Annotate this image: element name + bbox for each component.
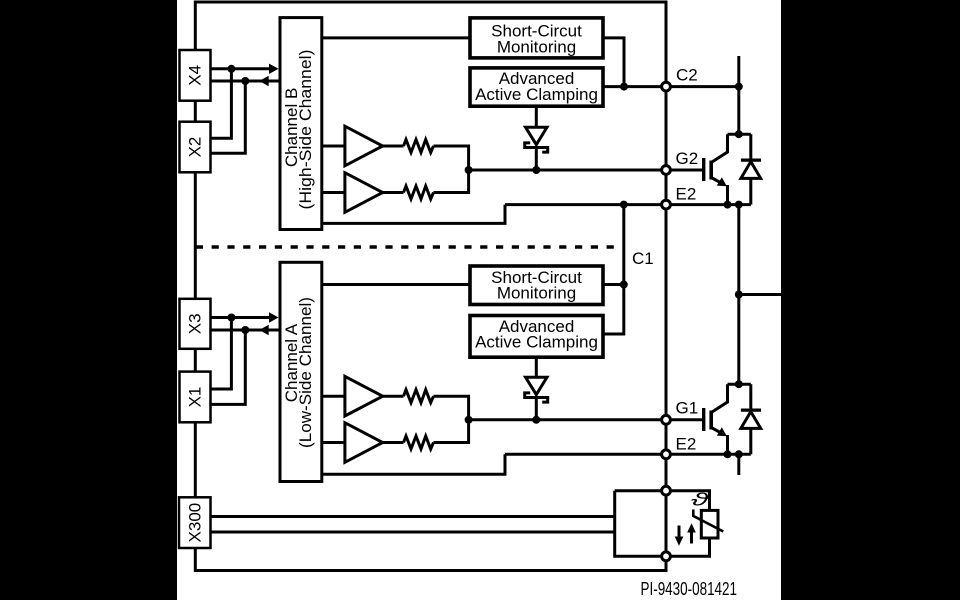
wire Channel A to buffer A2: [322, 441, 345, 444]
wire resistor RB2 to gate node B: [434, 170, 469, 193]
junction on X4 line 2: [241, 77, 249, 85]
wire Short-Circut Monitoring A output to C1 line: [603, 283, 624, 286]
junction phase output: [735, 291, 743, 299]
phase output wire: [739, 293, 781, 296]
clamp diode DA (TVS): [526, 377, 548, 394]
svg-text:X4: X4: [186, 65, 205, 86]
IGBT Q1 top bracket: [728, 383, 751, 386]
clamp diode DB (TVS): [526, 127, 548, 144]
Channel B box: [280, 18, 322, 230]
junction on X3 line 1: [227, 314, 235, 322]
IGBT Q1: [702, 408, 705, 431]
junction Q1 emitter on E2 wire: [724, 450, 732, 458]
junction C2 wire / collector: [735, 83, 743, 91]
wire Channel A to buffer A1: [322, 395, 345, 398]
terminal temp top: [662, 486, 671, 495]
Short-Circut Monitoring B box: [470, 18, 603, 58]
wire junction down to X2: [211, 69, 232, 139]
emitter wire E2 lower to terminal and IGBT: [505, 453, 751, 456]
junction D1 / DC- stub on E2 wire: [735, 450, 743, 458]
wire Channel B to buffer B2: [322, 191, 345, 194]
emitter wire E2 to terminal and IGBT: [505, 203, 751, 206]
junction C1 branch on E2 wire: [620, 201, 628, 209]
wire resistor RA2 to gate node A: [434, 420, 469, 443]
wire buffer A2 to resistor RA2: [383, 441, 404, 444]
Short-Circut Monitoring A box: [470, 266, 603, 305]
svg-text:PI-9430-081421: PI-9430-081421: [641, 579, 738, 599]
DC- stub: [737, 454, 740, 475]
C1 line from E2 wire down to Advanced Active Clamping A: [603, 205, 624, 334]
junction monitoring/clamping B: [620, 83, 628, 91]
terminal C2: [662, 82, 671, 91]
temperature sense loop: [615, 491, 710, 557]
wire Channel A to Short-Circut Monitoring A: [322, 283, 470, 286]
junction collector bracket Q2: [735, 130, 743, 138]
terminal G2: [662, 166, 671, 175]
wire buffer A1 to resistor RA1: [383, 395, 404, 398]
upper IGBT collector stub: [737, 56, 740, 134]
buffer A1: [345, 376, 383, 416]
terminal E2 lower: [662, 450, 671, 459]
svg-text:Monitoring: Monitoring: [497, 37, 576, 56]
wire Channel B bottom to E2 kink: [322, 205, 505, 224]
svg-text:C1: C1: [632, 249, 654, 268]
junction on X4 line 1: [227, 65, 235, 73]
current arrow up: [690, 532, 693, 544]
svg-text:X300: X300: [185, 503, 204, 543]
dashed channel separator: [196, 245, 621, 249]
wire X3 line 2 with arrow toward X3: [211, 329, 281, 332]
X300 connector box: [179, 497, 211, 548]
svg-text:Active Clamping: Active Clamping: [475, 333, 598, 352]
wire Advanced Active Clamping B to C2 terminal and IGBT collector: [603, 85, 739, 88]
wire X3 line 1 with arrow into Channel A: [211, 316, 272, 319]
wire buffer B1 to resistor RB1: [383, 145, 404, 148]
wire X4 line 2 with arrow toward X4: [211, 80, 281, 83]
gate wire B to G2 terminal and IGBT gate: [469, 169, 702, 172]
X300 wire 2: [211, 531, 615, 534]
X2 connector box: [180, 122, 211, 173]
resistor RA1: [404, 390, 434, 403]
wire Short-Circut Monitoring B output down to clamping wire: [603, 38, 624, 87]
svg-text:G1: G1: [676, 399, 699, 418]
buffer B1: [345, 126, 383, 166]
svg-text:G2: G2: [676, 149, 699, 168]
X4 connector box: [180, 50, 211, 101]
junction clamp diode A on gate wire: [532, 416, 540, 424]
freewheel diode D1: [749, 384, 752, 408]
IGBT Q2: [702, 158, 705, 181]
resistor RB2: [404, 186, 434, 199]
svg-text:Active Clamping: Active Clamping: [475, 85, 598, 104]
svg-text:X2: X2: [186, 137, 205, 158]
Advanced Active Clamping A box: [470, 316, 603, 358]
svg-text:X1: X1: [186, 387, 205, 408]
thermistor RT: [701, 510, 718, 538]
Advanced Active Clamping B box: [470, 68, 603, 106]
wire buffer B2 to resistor RB2: [383, 191, 404, 194]
svg-text:E2: E2: [676, 185, 697, 204]
resistor RA2: [404, 436, 434, 449]
svg-text:E2: E2: [676, 434, 697, 453]
phase line down to lower IGBT: [737, 205, 740, 385]
IGBT Q2 top bracket: [728, 133, 751, 136]
wire resistor RB1 to gate node B: [434, 146, 469, 170]
current arrow down: [678, 526, 681, 538]
wire junction down to X2: [211, 81, 246, 153]
junction gate node B: [465, 166, 473, 174]
terminal G1: [662, 415, 671, 424]
terminal temp bottom: [662, 552, 671, 561]
wire Channel A bottom to E2 kink: [322, 454, 505, 474]
junction Q2 emitter on E2 wire: [724, 201, 732, 209]
X300 wire 1: [211, 515, 615, 518]
buffer B2: [345, 173, 383, 213]
wire Channel B to Short-Circut Monitoring B: [322, 36, 470, 39]
white canvas: [177, 0, 781, 600]
junction collector bracket Q1: [735, 380, 743, 388]
X1 connector box: [180, 372, 211, 423]
svg-text:ϑ: ϑ: [691, 489, 709, 510]
svg-text:(Low-Side Channel): (Low-Side Channel): [296, 297, 315, 448]
junction gate node A: [465, 416, 473, 424]
svg-text:(High-Side Channel): (High-Side Channel): [296, 50, 315, 210]
terminal E2: [662, 200, 671, 209]
junction on X3 line 2: [241, 326, 249, 334]
junction D2 / phase line on E2 wire: [735, 201, 743, 209]
junction clamp diode B to gate wire: [532, 166, 540, 174]
wire resistor RA1 to gate node A: [434, 396, 469, 420]
wire junction down to X1: [211, 318, 232, 390]
X3 connector box: [180, 299, 211, 349]
wire Channel B to buffer B1: [322, 145, 345, 148]
wire X4 line 1 with arrow into Channel B: [211, 67, 272, 70]
clamp diode DA lead from clamping box: [535, 357, 538, 377]
freewheel diode D2: [749, 134, 752, 158]
driver board outer border: [195, 2, 666, 571]
wire junction down to X1: [211, 330, 246, 404]
Channel A box: [280, 262, 322, 481]
clamp diode DB lead from clamping box: [535, 106, 538, 127]
svg-text:Monitoring: Monitoring: [497, 284, 576, 303]
junction monitoring A on C1 line: [620, 281, 628, 289]
buffer A2: [345, 423, 383, 463]
svg-text:X3: X3: [186, 313, 205, 334]
resistor RB1: [404, 140, 434, 153]
gate wire A to G1 terminal and IGBT gate: [469, 418, 702, 421]
svg-text:C2: C2: [676, 66, 698, 85]
